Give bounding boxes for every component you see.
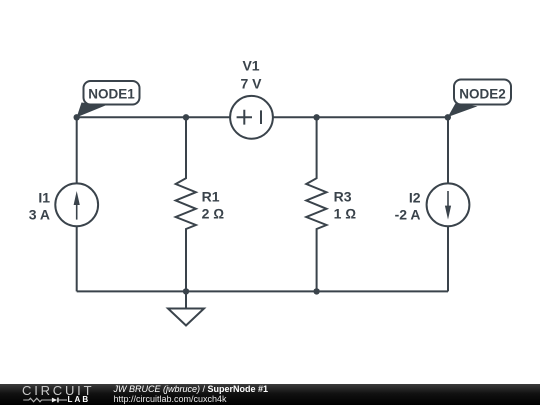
svg-text:1 Ω: 1 Ω xyxy=(334,205,357,221)
svg-text:R3: R3 xyxy=(334,188,352,204)
svg-text:-2 A: -2 A xyxy=(395,207,421,223)
svg-text:I1: I1 xyxy=(38,190,50,206)
svg-text:NODE1: NODE1 xyxy=(88,87,135,102)
svg-text:R1: R1 xyxy=(202,188,220,204)
svg-text:V1: V1 xyxy=(242,58,259,74)
svg-text:NODE2: NODE2 xyxy=(459,86,506,101)
svg-text:I2: I2 xyxy=(409,190,421,206)
svg-text:7 V: 7 V xyxy=(240,75,262,91)
svg-text:2 Ω: 2 Ω xyxy=(202,205,225,221)
svg-text:3 A: 3 A xyxy=(29,207,50,223)
